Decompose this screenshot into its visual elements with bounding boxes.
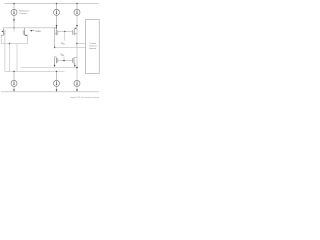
node gate bus tap (64, 31, 65, 32)
node top rail tap 3 (76, 3, 77, 4)
node bias rail tap B1 (13, 71, 14, 72)
wire source rail y=67.5 (21, 67, 77, 69)
wire left ground bus y=43.5 (1, 43, 28, 45)
node B junction (56, 27, 57, 28)
arrowhead Q6 source (74, 65, 76, 67)
node top rail tap 2 (56, 3, 57, 4)
wire down to sink S2 (56, 72, 58, 81)
node A junction (13, 27, 14, 28)
svg-text:Copyright © 2019, Texas Instru: Copyright © 2019, Texas Instruments Inco… (70, 96, 99, 99)
wire S3 to bottom rail (76, 86, 78, 91)
transistor Q6 (bottom pair right) (73, 58, 77, 67)
svg-text:Internal: Internal (89, 47, 96, 50)
wire Q1 source down to gnd bus (0, 35, 2, 43)
wire S2 to bottom rail (56, 86, 58, 91)
wire output line 1 to box (77, 43, 86, 45)
node rail meets I3 column (76, 67, 78, 69)
wire output line 2 to box (55, 47, 86, 49)
wire W1 drain bus y=27.8 (4, 27, 57, 29)
wire diode stub at node A (13, 28, 15, 32)
transistor Q5 (bottom pair left) (55, 57, 58, 67)
arrowhead Q1 source (1, 31, 3, 33)
arrowhead S2 out (56, 89, 58, 91)
wire bottom supply rail (1, 91, 99, 93)
wire tap from label to bottom gate bus (63, 56, 65, 60)
current sink S1 (11, 80, 17, 86)
wire top pair gate bus (58, 30, 73, 32)
transistor Q4 (top pair right) (73, 28, 77, 35)
node bias rail tap B2 (56, 71, 57, 72)
current source I2 (54, 9, 60, 15)
wire drop x=9.5 (9, 44, 11, 72)
current flow annotation arrow (30, 30, 32, 32)
arrowhead S1 out (13, 89, 15, 91)
arrowhead current direction down (13, 19, 15, 21)
node on ground bus (9, 43, 10, 44)
arrowhead down (56, 25, 58, 27)
wire top supply rail (5, 3, 99, 5)
svg-text:B1: B1 (63, 43, 65, 45)
arrowhead Q4 (75, 28, 77, 30)
wire down to sink S1 (13, 72, 15, 81)
current sink S2 (54, 80, 60, 86)
wire Q2 source down (27, 35, 29, 43)
wire IREF to node A (13, 15, 15, 27)
wire branch to output line (55, 28, 57, 48)
current source IREF (Reference Current) (11, 9, 17, 15)
transistor Q2 (left mirror, output side) (23, 28, 28, 36)
svg-text:Current: Current (19, 12, 27, 15)
node top rail tap 1 (13, 3, 14, 4)
transistor Q3 (top pair left) (55, 30, 58, 36)
wire stub rail to I3 (76, 4, 78, 10)
wire S1 to bottom rail (13, 86, 15, 91)
wire stub rail to IREF (13, 4, 15, 10)
node bottom gate bus tap (63, 60, 64, 61)
current source I3 (74, 9, 80, 15)
wire drop x=4.9 (4, 35, 6, 72)
node D junction (76, 43, 77, 44)
current sink S3 (74, 80, 80, 86)
wire I2 down to node B (56, 15, 58, 29)
wire bias rail y=71.5 (5, 71, 65, 73)
wire bottom pair gate bus (58, 60, 73, 62)
arrowhead S3 out (76, 89, 78, 91)
wire drop x=17 (16, 44, 18, 72)
wire stub rail to I2 (56, 4, 58, 10)
wire I3 column down (76, 15, 78, 80)
background (0, 0, 100, 100)
arrowhead Q5 source (54, 65, 56, 67)
wire tap to label (64, 31, 66, 40)
transistor Q1 (left mirror, diode side) (1, 28, 5, 36)
arrowhead down on I3 column (76, 25, 78, 27)
node C junction (54, 47, 55, 48)
box internal circuitry (86, 20, 100, 74)
arrowhead Q2 source (26, 35, 28, 37)
